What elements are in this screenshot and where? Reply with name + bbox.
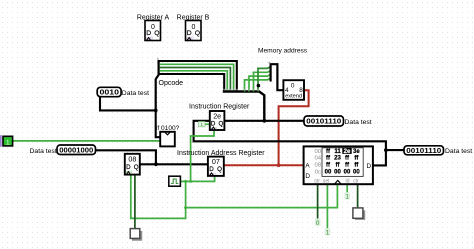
svg-text:D: D	[305, 173, 310, 180]
svg-text:08: 08	[314, 162, 321, 168]
svg-text:11: 11	[334, 149, 341, 155]
svg-text:Q: Q	[219, 121, 224, 128]
svg-text:Q: Q	[217, 166, 222, 173]
svg-text:0: 0	[291, 83, 295, 90]
svg-text:0c: 0c	[315, 170, 321, 176]
svg-text:04: 04	[314, 156, 321, 162]
svg-text:00: 00	[314, 149, 321, 155]
svg-text:Data test: Data test	[445, 148, 472, 155]
svg-text:3e: 3e	[353, 149, 360, 155]
svg-text:extend: extend	[285, 94, 302, 100]
svg-text:00: 00	[325, 170, 332, 176]
svg-text:00: 00	[344, 170, 351, 176]
svg-text:00101110: 00101110	[306, 117, 341, 126]
svg-text:Q: Q	[134, 164, 139, 171]
svg-text:A: A	[305, 163, 310, 170]
svg-text:00: 00	[353, 170, 360, 176]
svg-text:D: D	[367, 163, 372, 170]
svg-text:Data test: Data test	[345, 119, 372, 126]
svg-text:0010: 0010	[100, 88, 120, 97]
svg-text:00001000: 00001000	[59, 145, 93, 154]
svg-text:00101110: 00101110	[406, 146, 441, 155]
svg-text:1: 1	[200, 122, 203, 128]
svg-text:Data test: Data test	[30, 148, 57, 155]
svg-text:clr: clr	[353, 178, 359, 184]
svg-text:str: str	[314, 178, 320, 184]
svg-text:Memory address: Memory address	[258, 48, 308, 55]
svg-text:07: 07	[212, 157, 220, 166]
svg-text:Instruction Register: Instruction Register	[189, 104, 250, 111]
svg-text:Data test: Data test	[122, 90, 149, 97]
svg-text:1: 1	[6, 139, 10, 146]
svg-text:2e: 2e	[344, 149, 351, 155]
svg-text:sel: sel	[323, 178, 330, 184]
svg-text:00: 00	[334, 170, 341, 176]
svg-text:23: 23	[334, 156, 341, 162]
svg-text:08: 08	[128, 155, 136, 164]
svg-text:Q: Q	[154, 30, 159, 37]
svg-text:Opcode: Opcode	[159, 80, 184, 87]
svg-text:ld: ld	[346, 178, 350, 184]
svg-text:Q: Q	[195, 30, 200, 37]
svg-text:2e: 2e	[213, 111, 221, 120]
